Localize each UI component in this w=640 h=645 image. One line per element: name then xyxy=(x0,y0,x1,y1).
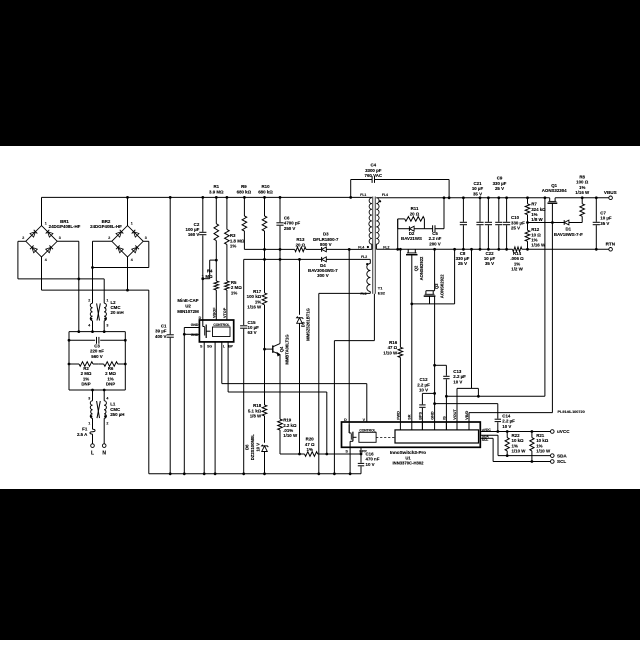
svg-text:CONTROL: CONTROL xyxy=(359,428,375,432)
wire R10 through A and B lines xyxy=(263,248,266,293)
polarity dot FL2 bias xyxy=(366,263,368,265)
transistor Q4 MMBTA06LT1G xyxy=(265,334,290,364)
wire MinE-CAP BP pin route xyxy=(228,342,328,456)
diode D3 DFLR1800-7 800 V xyxy=(306,232,372,252)
diode D1 BAV19WS-7-F xyxy=(528,220,584,237)
wire drain line FL4 to D pin xyxy=(348,249,350,433)
svg-text:2: 2 xyxy=(22,236,24,240)
svg-text:SG: SG xyxy=(207,344,212,348)
svg-text:L: L xyxy=(223,344,225,348)
svg-text:IS: IS xyxy=(442,416,446,420)
wire B line corner to C15 xyxy=(243,259,245,325)
pin label BPP xyxy=(359,449,367,453)
svg-text:SR: SR xyxy=(408,414,412,420)
resistor R17 100 kOhm 1% 1/16 W xyxy=(247,289,267,349)
svg-text:R1120 Ω: R1120 Ω xyxy=(410,206,420,216)
top letterbox band (decorative frame) xyxy=(0,0,640,146)
svg-text:VBOF: VBOF xyxy=(212,307,216,318)
svg-text:2: 2 xyxy=(88,299,90,303)
wire snubber left leg xyxy=(396,219,399,251)
svg-text:GND: GND xyxy=(191,323,199,327)
capacitor C3 220 nF 560 V xyxy=(68,337,127,359)
resistor R5 2 MOhm 1% xyxy=(225,280,243,320)
pin label SDA (U1) xyxy=(482,434,490,438)
wire BR1 pin2 loop xyxy=(18,241,104,280)
wire C2 node to MinE-CAP D pin xyxy=(202,279,204,320)
wire U1 BPP pin down xyxy=(360,447,363,463)
wire IS sense horizontal xyxy=(445,395,545,398)
svg-text:FL4: FL4 xyxy=(382,193,388,197)
fuse F1 2.5 A xyxy=(77,418,95,443)
wire Q3 source down GND line xyxy=(433,296,436,422)
pin label D (MinE-CAP) xyxy=(199,316,202,320)
terminal uVCC xyxy=(551,429,571,434)
wire IS pin up xyxy=(445,396,447,430)
svg-text:FL1: FL1 xyxy=(360,193,366,197)
wire MinE-CAP GND down xyxy=(183,328,186,476)
inductor L2 CMC 20 mH xyxy=(88,299,123,328)
wire box to L1 pin3 xyxy=(91,389,94,401)
pin label FL1 xyxy=(360,193,366,197)
wire Q2 gate down to SR xyxy=(410,255,413,422)
transformer T1 secondary winding FL4-FL2 xyxy=(376,198,379,250)
wire VOUT sense line xyxy=(544,196,547,396)
svg-text:BPS: BPS xyxy=(418,412,422,420)
resistor R2 2 MOhm DNP xyxy=(68,362,127,387)
U1 inner secondary block xyxy=(395,430,479,443)
capacitor C10 330 uF 25 V xyxy=(503,196,525,250)
svg-text:VB/D: VB/D xyxy=(465,410,469,419)
wire R19 bottom to BPP line xyxy=(0,0,1,1)
resistor R9 680 kOhm xyxy=(237,184,252,250)
svg-text:3: 3 xyxy=(88,397,90,401)
wire bias line B xyxy=(244,258,322,260)
resistor R12 10 Ohm 1% 1/16 W xyxy=(525,223,546,251)
wire VB/D pin route xyxy=(469,413,553,430)
wire FL5 to primary ground xyxy=(317,293,370,475)
wire Q3 drain from rail xyxy=(426,248,436,291)
transformer T1 bias winding FL2-FL5 xyxy=(367,259,370,293)
resistor R4 1 MOhm xyxy=(202,260,219,320)
svg-text:D: D xyxy=(344,418,347,422)
pin label SR (U1) xyxy=(408,414,412,420)
label U1 xyxy=(405,456,411,461)
wire L2 pin4 to box xyxy=(91,321,94,333)
wire U1 S pin to ground xyxy=(349,447,352,475)
pin label BPS (U1) xyxy=(418,412,422,420)
pin label VOUT (U1) xyxy=(453,409,457,420)
svg-text:U2: U2 xyxy=(185,304,191,309)
label T1 E32 xyxy=(378,285,386,295)
svg-text:3: 3 xyxy=(145,236,147,240)
resistor R3 1.8 MOhm 1% xyxy=(225,196,245,281)
wire core stitch to ground xyxy=(333,341,336,476)
label InnoSwitch3-Pro xyxy=(390,450,426,455)
label INN3370C-H302 xyxy=(393,461,425,466)
wire MinE-CAP GND stubs xyxy=(183,328,199,336)
capacitor C12 2.2 uF 10 V xyxy=(417,377,434,430)
pin label VTOP xyxy=(223,307,227,318)
terminal VBUS xyxy=(604,190,617,199)
pin labels GND GND (MinE-CAP) xyxy=(191,323,199,337)
wire BR2 pin2 to L2 xyxy=(91,241,112,303)
wire clamp line A xyxy=(244,248,350,251)
wire C6 through A to B xyxy=(279,248,282,261)
resistor R16 47 Ohm 1/10 W xyxy=(383,340,402,422)
wire secondary top rail right of Q1 xyxy=(555,197,609,199)
svg-text:CONTROL: CONTROL xyxy=(213,323,229,327)
pin label SCL (U1) xyxy=(482,438,489,442)
svg-text:RTN: RTN xyxy=(606,242,616,247)
svg-text:GND: GND xyxy=(431,411,435,420)
svg-text:4: 4 xyxy=(106,397,108,401)
wire GND pin to C14 xyxy=(433,402,498,405)
svg-text:SDA: SDA xyxy=(557,453,567,458)
pin label D (U1) xyxy=(344,418,347,422)
pin label uVDC xyxy=(482,428,492,432)
pin label FL4 left xyxy=(358,245,364,249)
svg-text:InnoSwitch3-Pro: InnoSwitch3-Pro xyxy=(390,450,426,455)
capacitor C4 3300 pF 760 VAC xyxy=(349,163,450,200)
capacitor C1 39 uF 400 V xyxy=(155,196,174,475)
pin label FL5 xyxy=(360,292,366,296)
resistor R1 3.9 MOhm xyxy=(209,184,224,260)
terminal SCL xyxy=(551,459,567,464)
diode D4 BAV3004WS-7 300 V xyxy=(308,257,370,278)
svg-text:3: 3 xyxy=(59,236,61,240)
resistor R22 10 kOhm 1% 1/10 W xyxy=(505,430,526,457)
polarity dot FL4 xyxy=(367,246,369,248)
bottom letterbox band (decorative frame) xyxy=(0,489,640,640)
pin label IS (U1) xyxy=(442,416,446,420)
svg-text:uVCC: uVCC xyxy=(557,429,570,434)
pin label VBOF xyxy=(212,307,216,318)
capacitor C21 10 uF 35 V xyxy=(472,181,484,251)
capacitor C13 2.2 uF 10 V xyxy=(435,365,467,396)
wire BR2 pin4 down xyxy=(126,257,129,292)
svg-text:FL4: FL4 xyxy=(358,245,364,249)
wire B line to Q4 collector xyxy=(279,259,281,343)
wire primary top rail xyxy=(42,196,372,198)
svg-text:3: 3 xyxy=(106,324,108,328)
op-amp U1 InnoSwitch3-Pro body xyxy=(342,422,481,447)
wire SDA line xyxy=(480,435,550,455)
svg-text:MinE-CAP: MinE-CAP xyxy=(177,298,198,303)
label PI-9146-100720 xyxy=(558,410,585,414)
U1 dashed link xyxy=(376,436,395,438)
wire Q3 gate join xyxy=(412,296,455,304)
wire node to x148 xyxy=(93,267,149,269)
wire filter box frame xyxy=(69,332,125,390)
terminal SDA xyxy=(551,453,568,458)
wire uVDC line xyxy=(480,431,550,433)
zener diode D5 MMSZ5261BT1G xyxy=(297,258,311,455)
svg-text:1: 1 xyxy=(131,222,133,226)
svg-text:BP: BP xyxy=(228,344,233,348)
resistor R7 324 kOhm 1% 1/8 W xyxy=(525,196,546,224)
pin label FL2 bias xyxy=(361,255,367,259)
svg-text:2: 2 xyxy=(106,421,108,425)
wire MinE-CAP S pin down xyxy=(203,342,206,475)
wire RTN rail right xyxy=(522,248,609,250)
resistor R6 2 MOhm DNP xyxy=(99,362,126,387)
terminal N xyxy=(102,418,106,456)
transistor Q2 AONS62922 xyxy=(406,249,424,280)
U1 internal FET xyxy=(349,425,356,448)
pin label VB/D (U1) xyxy=(465,410,469,419)
inductor L1 CMC 250 uH xyxy=(88,397,124,426)
svg-text:FWD: FWD xyxy=(396,411,400,420)
wire BR1 pin3 down xyxy=(57,241,80,333)
U1 top pin stubs xyxy=(400,422,469,430)
zener diode D6 DZ2S100M0L 10 V xyxy=(245,434,269,475)
resistor R14 .006 Ohm 1% 1/2 W xyxy=(510,247,524,272)
bridge rectifier BR1 24DGP408L-HF xyxy=(22,219,80,262)
resistor R13 20 Ohm xyxy=(295,237,306,252)
svg-text:INN3370C-H302: INN3370C-H302 xyxy=(393,461,425,466)
capacitor C9 330 uF 25 V xyxy=(493,176,507,251)
wire L2 pin3 to box xyxy=(103,321,106,333)
U1 CONTROL block xyxy=(359,428,376,442)
wire L2 pin1 up to loop line xyxy=(103,279,105,303)
wire BR1 pin1 to rail xyxy=(41,197,43,225)
wire core ground stitch xyxy=(334,294,374,341)
svg-text:VBUS: VBUS xyxy=(604,190,617,195)
capacitor C7 10 uF 35 V xyxy=(593,196,612,250)
pin label FL2 right xyxy=(383,245,389,249)
wire MinE-CAP SG pin down xyxy=(214,342,217,475)
pin labels S SG L BP xyxy=(200,344,234,348)
wire SCL line xyxy=(480,438,550,461)
pin label FWD (U1) xyxy=(396,411,400,420)
capacitor C6 4700 pF 250 V xyxy=(276,196,300,249)
svg-text:4: 4 xyxy=(45,258,47,262)
transformer T1 primary winding FL1-FL4 xyxy=(369,197,372,249)
wire secondary top rail xyxy=(376,197,549,199)
svg-text:FL2: FL2 xyxy=(361,255,367,259)
capacitor C14 2.2 uF 10 V xyxy=(495,404,516,433)
terminal L xyxy=(91,444,95,457)
wire BR2 pin3 down x148 xyxy=(143,241,149,473)
pin label S (U1) xyxy=(345,449,348,453)
wire Q1 gate down xyxy=(551,203,554,412)
MinE-CAP internal FET xyxy=(203,320,211,338)
svg-text:1: 1 xyxy=(88,421,90,425)
svg-text:VTOP: VTOP xyxy=(223,307,227,318)
svg-text:MIN1072M: MIN1072M xyxy=(177,309,199,314)
wire R1-R4 jog to C2 node xyxy=(203,259,218,279)
svg-text:4: 4 xyxy=(88,324,90,328)
svg-text:PI-9146-100720: PI-9146-100720 xyxy=(558,410,585,414)
capacitor C22 10 uF 35 V xyxy=(484,196,496,266)
pin label GND (U1) xyxy=(431,411,435,420)
capacitor C16 470 nF 10 V xyxy=(358,451,380,473)
capacitor C8 330 uF 25 V xyxy=(456,196,470,266)
resistor R10 680 kOhm xyxy=(258,184,273,250)
wire source return to RTN rail xyxy=(453,248,456,304)
bridge rectifier BR2 24DGP408L-HF xyxy=(90,219,147,262)
svg-text:1: 1 xyxy=(106,299,108,303)
resistor R8 100 Ohm 1% 1/16 W xyxy=(575,174,590,222)
svg-text:R1320 Ω: R1320 Ω xyxy=(296,237,306,247)
svg-text:1: 1 xyxy=(45,222,47,226)
diode D2 BAV21WS xyxy=(398,219,425,241)
transistor Q1 AONS32304 xyxy=(542,183,567,203)
wire box to L1 pin4 xyxy=(103,389,106,401)
wire primary ground rail xyxy=(149,473,361,475)
wire MinE-CAP L pin route to U1 V pin xyxy=(222,342,367,422)
pin label V (U1) xyxy=(363,418,366,422)
capacitor C15 10 uF 63 V xyxy=(240,320,259,475)
node Q4 base tap xyxy=(263,348,266,351)
wire BR1 pin4 to h290 xyxy=(42,257,149,290)
wire VOUT pin route xyxy=(457,248,480,430)
wire BR2 pin1 to rail xyxy=(126,196,129,226)
wire RTN rail xyxy=(376,248,512,250)
polarity dot FL4 secondary xyxy=(379,200,381,202)
op-amp U2 MinE-CAP MIN1072M body xyxy=(177,298,233,342)
svg-text:FL2: FL2 xyxy=(383,245,389,249)
transistor Q3 AONS62922 xyxy=(424,274,445,298)
pin label FL4 top xyxy=(382,193,388,197)
capacitor C5 2.2 nF 200 V xyxy=(424,196,445,246)
resistor R20 47 Ohm 1% xyxy=(280,437,361,457)
svg-text:VOUT: VOUT xyxy=(453,409,457,420)
resistor R18 5.1 kOhm 1/8 W xyxy=(248,349,267,443)
svg-text:GND: GND xyxy=(191,333,199,337)
svg-text:SCL: SCL xyxy=(557,459,566,464)
wire FWD line top xyxy=(399,248,402,347)
terminal RTN xyxy=(606,242,616,251)
resistor R11 20 Ohm xyxy=(398,206,425,221)
svg-text:N: N xyxy=(102,451,106,457)
capacitor C2 100 uF 160 V xyxy=(186,196,207,280)
svg-text:D: D xyxy=(199,316,202,320)
svg-text:L: L xyxy=(91,451,94,457)
resistor R21 10 kOhm 1% 1/10 W xyxy=(530,430,551,463)
resistor R19 2.2 kOhm .01% 1/10 W xyxy=(278,355,298,454)
transformer T1 core xyxy=(373,197,375,294)
svg-text:4: 4 xyxy=(131,258,133,262)
MinE-CAP CONTROL block xyxy=(213,323,231,336)
svg-text:2: 2 xyxy=(108,236,110,240)
